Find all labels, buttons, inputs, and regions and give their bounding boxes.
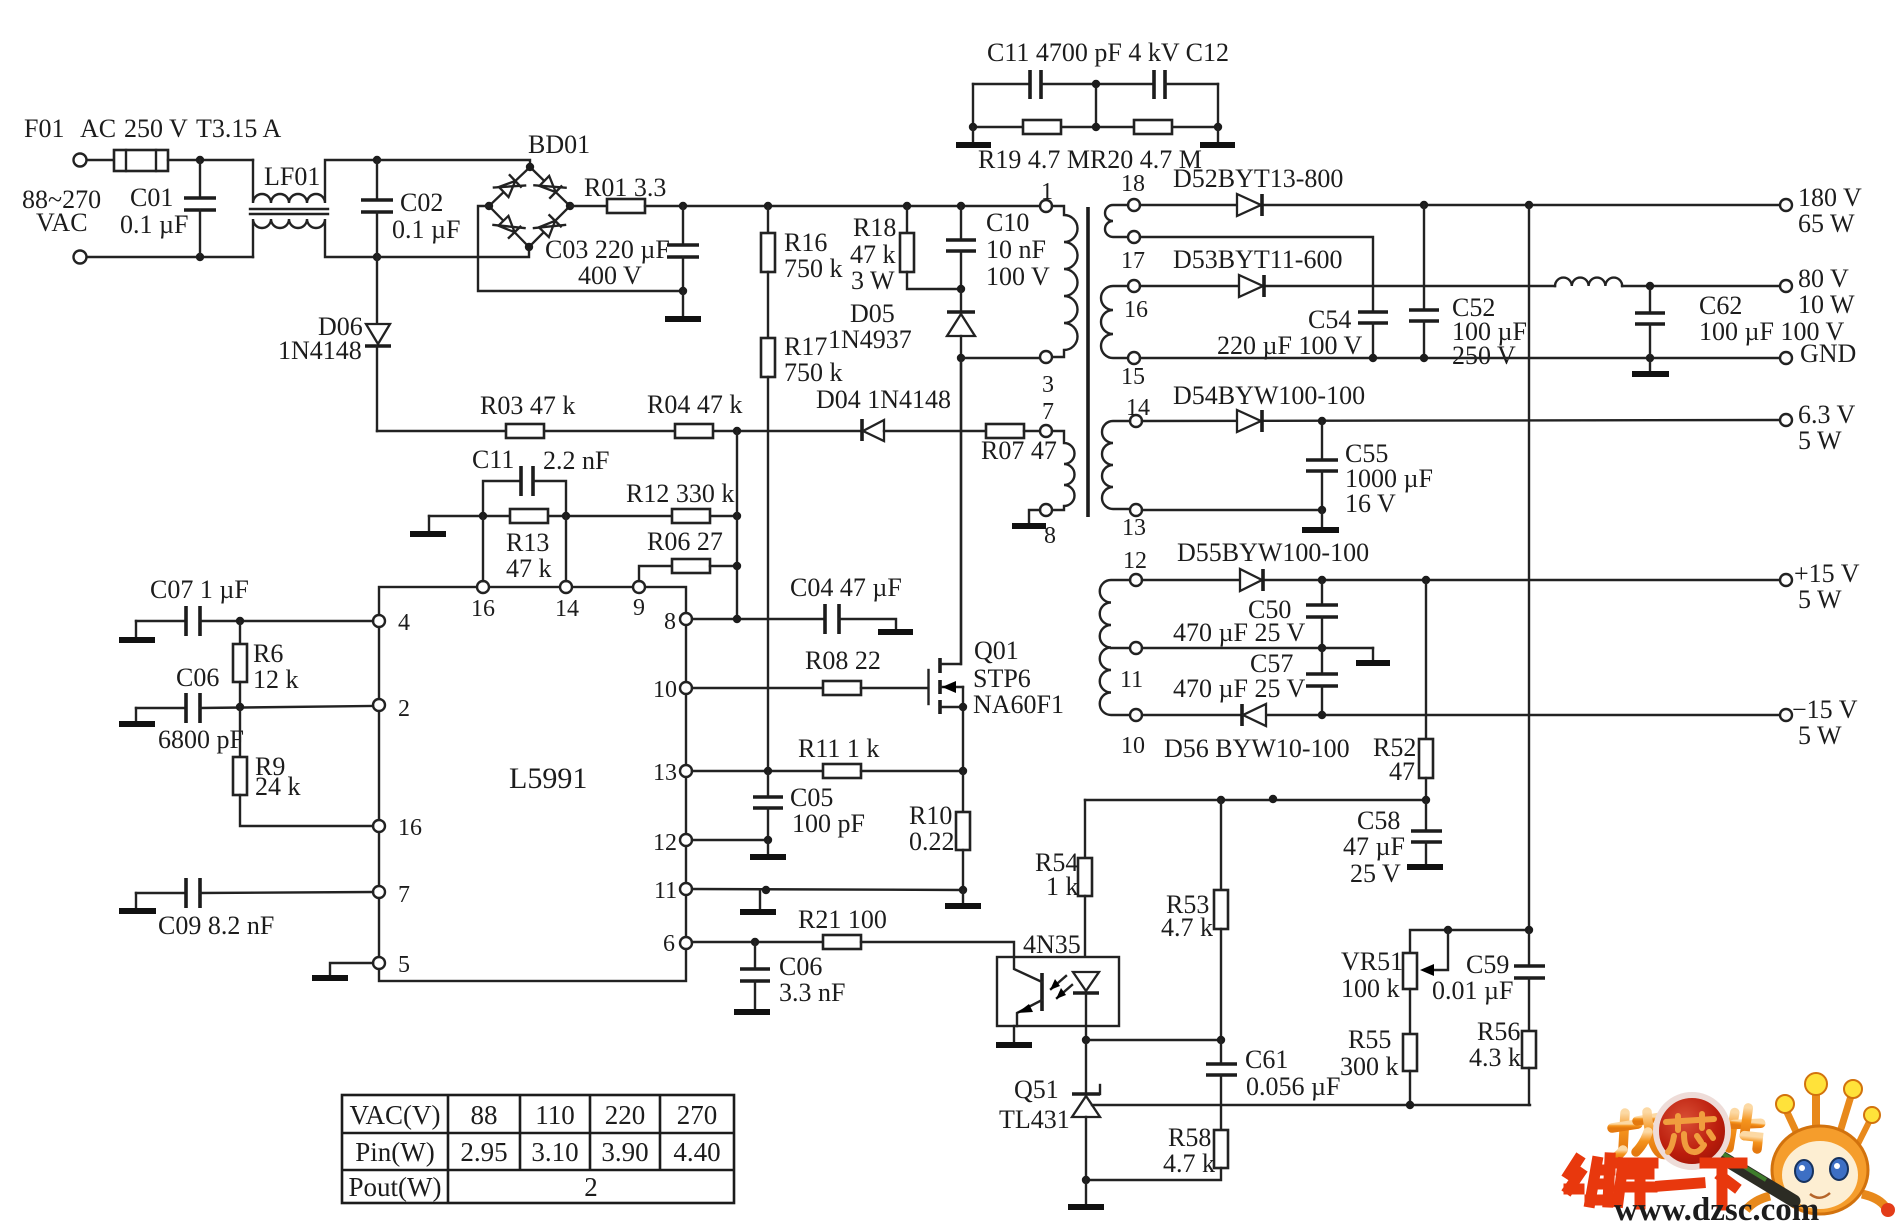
ground C55 [1302, 510, 1339, 530]
svg-text:D04 1N4148: D04 1N4148 [816, 385, 951, 414]
wire 6.3V rail [1142, 420, 1780, 421]
svg-text:F01: F01 [24, 114, 64, 143]
wire R21 to opto [861, 942, 1014, 957]
IC pin 10 [680, 682, 692, 694]
label C50 470uF 25V [1173, 595, 1305, 647]
resistor R01 [607, 199, 645, 213]
watermark char pian [1729, 1106, 1762, 1151]
resistor R06 [639, 559, 737, 581]
optocoupler 4N35 box [997, 957, 1119, 1026]
label C03 220uF 400V [545, 235, 670, 290]
label C06 3.3nF [779, 952, 845, 1007]
wire snubber mid drop [1095, 84, 1097, 127]
svg-text:R6: R6 [253, 639, 283, 668]
svg-text:R12 330 k: R12 330 k [626, 479, 734, 508]
node R53 top [1217, 796, 1225, 804]
svg-text:C10: C10 [986, 208, 1029, 237]
wire pin17 to C54 [1140, 237, 1373, 312]
op-amp U1 L5991 box [379, 587, 686, 981]
label R52 47 [1373, 733, 1416, 786]
node C55 top [1318, 417, 1326, 425]
node R13 left [479, 512, 487, 520]
wire R07 to pin 7 [1024, 430, 1040, 432]
node R55 bottom [1406, 1101, 1414, 1109]
diode D52 [1237, 194, 1262, 216]
capacitor C59 [1514, 930, 1545, 1031]
node R6 top [236, 617, 244, 625]
node C01 bottom junction [196, 253, 204, 261]
IC pin 4 [373, 615, 385, 627]
svg-text:C06: C06 [176, 663, 219, 692]
capacitor C50 [1306, 580, 1338, 648]
watermark magnifier lens [1656, 1095, 1728, 1167]
resistor R17 [761, 338, 775, 377]
svg-text:4: 4 [398, 610, 410, 636]
capacitor C57 [1306, 648, 1338, 715]
node C61 top [1217, 1036, 1225, 1044]
svg-text:7: 7 [1042, 399, 1054, 425]
resistor R03 [506, 424, 544, 438]
wire top rail to C02 [168, 159, 253, 161]
node snubber mid top [1092, 80, 1100, 88]
svg-text:VAC(V): VAC(V) [349, 1100, 440, 1130]
resistor R08 [692, 681, 928, 695]
transformer primary winding [1052, 206, 1078, 357]
transformer pin 11 [1130, 642, 1142, 654]
node pin3 junction [957, 354, 965, 362]
wire 80V rail [1140, 285, 1555, 287]
node C05 bottom [764, 836, 772, 844]
transformer pin 16 [1128, 280, 1140, 292]
IC pin 11 [680, 883, 692, 895]
ground C06 3.3nF [734, 1009, 770, 1015]
capacitor C62 [1635, 286, 1665, 358]
ground C04 [878, 629, 913, 635]
node C57 bottom [1318, 711, 1326, 719]
node C10 top [957, 202, 965, 210]
wire pin13 R11 row [692, 770, 823, 772]
IC pin 14 top [560, 581, 572, 593]
capacitor C01 [184, 160, 216, 257]
svg-text:Pout(W): Pout(W) [349, 1172, 442, 1202]
secondary winding 18-17 [1105, 205, 1128, 237]
svg-text:6: 6 [663, 931, 675, 957]
table column line 3 [589, 1095, 592, 1170]
svg-text:470 µF 25 V: 470 µF 25 V [1173, 618, 1305, 647]
label +15V 5W [1794, 559, 1860, 614]
node R11 right [959, 767, 967, 775]
svg-text:4.3 k: 4.3 k [1469, 1043, 1521, 1072]
ground snubber left [956, 127, 991, 145]
label C02 [392, 188, 460, 244]
inductor 80V filter [1555, 278, 1622, 286]
svg-text:R21 100: R21 100 [798, 905, 887, 934]
svg-text:D54BYW100-100: D54BYW100-100 [1173, 381, 1365, 410]
IC pin 8 [680, 613, 692, 625]
capacitor C09 [136, 878, 373, 908]
svg-text:R58: R58 [1168, 1123, 1211, 1152]
resistor R11 [823, 764, 861, 778]
transistor Q51 TL431 [1072, 1040, 1100, 1180]
svg-text:1N4148: 1N4148 [278, 336, 362, 365]
wire -15V rail [1142, 714, 1780, 716]
node pin8/x737 [733, 615, 741, 623]
wire pin13 row [1142, 509, 1322, 511]
wire R03 R04 row [377, 430, 862, 432]
svg-text:80 V: 80 V [1798, 264, 1849, 293]
resistor R52 [1419, 580, 1433, 799]
svg-text:2: 2 [584, 1172, 598, 1202]
label C11 2.2nF [472, 445, 609, 475]
svg-text:C01: C01 [130, 183, 173, 212]
wire [87, 159, 114, 161]
diode D55 [1240, 569, 1263, 591]
label R13 47k [506, 528, 552, 583]
node C62 bottom [1646, 354, 1654, 362]
resistor R55 [1403, 989, 1417, 1105]
wire pin 12 row [692, 839, 768, 841]
svg-text:2.2 nF: 2.2 nF [543, 446, 609, 475]
svg-text:Q51: Q51 [1014, 1075, 1059, 1104]
svg-text:NA60F1: NA60F1 [973, 690, 1064, 719]
ground C58 [1407, 864, 1443, 870]
node R04/vertical junction [733, 427, 741, 435]
capacitor C02 [361, 160, 393, 257]
resistor R07 [986, 424, 1024, 438]
watermark robot mascot [1746, 1073, 1895, 1217]
wire pin 6 row [692, 941, 823, 943]
svg-text:4.7 k: 4.7 k [1161, 913, 1213, 942]
wire bottom rail to bridge [377, 247, 529, 257]
transformer aux winding [1052, 431, 1075, 510]
label C57 470uF 25V [1173, 649, 1305, 703]
svg-text:4N35: 4N35 [1023, 930, 1081, 959]
diode D53 [1239, 275, 1264, 297]
svg-text:750 k: 750 k [784, 358, 843, 387]
resistor R20 [1134, 120, 1172, 134]
label C59 0.01uF [1432, 950, 1513, 1005]
node C62 top [1646, 282, 1654, 290]
ground C05 [750, 840, 786, 857]
label Q51 TL431 [999, 1075, 1070, 1134]
wire pin11 row [1142, 647, 1373, 649]
wire +15V rail [1142, 579, 1780, 581]
terminal AC input top [74, 154, 87, 167]
label R10 0.22 [909, 801, 955, 856]
svg-text:1N4937: 1N4937 [828, 325, 912, 354]
transformer pin 1 [1040, 200, 1052, 212]
svg-text:D55BYW100-100: D55BYW100-100 [1177, 538, 1369, 567]
svg-text:R19 4.7 MR20 4.7 M: R19 4.7 MR20 4.7 M [978, 145, 1202, 174]
svg-text:14: 14 [1126, 395, 1150, 421]
node HV vertical bottom [1525, 926, 1533, 934]
secondary winding 14-13 [1102, 421, 1130, 509]
label -15V 5W [1792, 695, 1858, 750]
node R11 left [764, 767, 772, 775]
label VR51 100k [1341, 947, 1403, 1003]
wire HV vertical x1529 [1528, 205, 1530, 929]
node C03 top [679, 202, 687, 210]
node R52 top [1422, 576, 1430, 584]
terminal 80V [1780, 280, 1792, 292]
svg-text:R17: R17 [784, 332, 827, 361]
inductor LF01 common-mode choke [250, 160, 377, 257]
resistor R56 [1522, 1031, 1536, 1105]
node R12 right [733, 512, 741, 520]
wire R11 to source [861, 770, 963, 772]
wire pin16top to R13 [482, 516, 484, 581]
svg-text:VR51: VR51 [1341, 947, 1403, 976]
resistor R04 [675, 424, 713, 438]
ground C07 [119, 621, 155, 640]
label Q01 STP6 NA60F1 [973, 636, 1064, 719]
transformer pin 14 [1130, 415, 1142, 427]
svg-text:C54: C54 [1308, 305, 1351, 334]
capacitor C10 [946, 206, 976, 289]
svg-text:65 W: 65 W [1798, 209, 1855, 238]
label D06 1N4148 [278, 312, 363, 365]
wire pin 8 row [692, 618, 825, 620]
table text row 1 [349, 1100, 717, 1130]
svg-text:0.01 µF: 0.01 µF [1432, 976, 1513, 1005]
transformer pin 3 [1040, 351, 1052, 363]
terminal +15V [1780, 574, 1792, 586]
node HV vertical top [1525, 201, 1533, 209]
resistor R9 [233, 707, 373, 826]
capacitor C06 3.3nF [740, 942, 770, 1009]
transformer pin 8 [1040, 504, 1052, 516]
svg-text:47 µF: 47 µF [1343, 832, 1405, 861]
capacitor C06 6800pF [136, 693, 373, 723]
svg-text:100 µF 100 V: 100 µF 100 V [1699, 317, 1844, 346]
wire R16-R17 [767, 272, 769, 338]
svg-text:13: 13 [1122, 515, 1146, 541]
node extra dot [1269, 795, 1277, 803]
svg-text:C05: C05 [790, 783, 833, 812]
table text row 3 [349, 1172, 598, 1202]
wire TL431 ref row [1092, 1104, 1530, 1106]
svg-text:BD01: BD01 [528, 130, 590, 159]
svg-text:0.056 µF: 0.056 µF [1246, 1072, 1340, 1101]
wire R58 bottom [1086, 1168, 1221, 1180]
wire top rail to bridge [377, 160, 530, 167]
node C02 top junction [373, 156, 381, 164]
svg-text:10: 10 [1121, 733, 1145, 759]
svg-text:R11 1 k: R11 1 k [798, 734, 879, 763]
transformer pin 13 [1130, 504, 1142, 516]
svg-text:R08 22: R08 22 [805, 646, 881, 675]
capacitor C03 [667, 206, 699, 291]
node R13 right [562, 512, 570, 520]
light arrows [1050, 976, 1072, 999]
wire R17 down through rows to C05 node [767, 377, 769, 770]
IC pin 9 top [633, 581, 645, 593]
svg-text:100 V: 100 V [986, 262, 1050, 291]
svg-text:−15 V: −15 V [1792, 695, 1858, 724]
node C50 bottom [1318, 644, 1326, 652]
node R06 right [733, 562, 741, 570]
svg-text:C07 1 µF: C07 1 µF [150, 575, 249, 604]
node LED cathode / TL431 [1082, 1036, 1090, 1044]
diode D06 [365, 257, 391, 431]
label C61 0.056uF [1245, 1045, 1340, 1101]
potentiometer VR51 [1403, 930, 1448, 989]
svg-text:17: 17 [1121, 248, 1145, 274]
svg-text:5 W: 5 W [1798, 426, 1842, 455]
node snubber left [969, 123, 977, 131]
capacitor C11 snubber [973, 70, 1154, 99]
label 180V 65W [1798, 183, 1862, 238]
transformer pin 12 [1130, 574, 1142, 586]
svg-text:5: 5 [398, 952, 410, 978]
diode D04 [862, 419, 884, 441]
svg-text:C62: C62 [1699, 291, 1742, 320]
transformer pin 17 [1128, 231, 1140, 243]
svg-text:13: 13 [653, 760, 677, 786]
diode D54 [1237, 410, 1262, 432]
label R16 750k [784, 228, 843, 283]
transformer pin 18 [1128, 199, 1140, 211]
wire winding tap pin 11 [1111, 647, 1130, 649]
label C52 100uF 250V [1452, 293, 1527, 370]
label R56 4.3k [1469, 1017, 1521, 1072]
svg-text:100 k: 100 k [1341, 974, 1400, 1003]
label C54 220uF 100V [1217, 305, 1362, 360]
label C58 47uF 25V [1343, 806, 1405, 888]
svg-text:3.10: 3.10 [531, 1137, 578, 1167]
optocoupler phototransistor [1014, 957, 1042, 1042]
svg-text:R07 47: R07 47 [981, 436, 1057, 465]
node Q01 source dot [959, 703, 967, 711]
watermark char zhao [1611, 1112, 1667, 1159]
svg-text:16: 16 [471, 596, 495, 622]
ground snubber right [1200, 127, 1235, 145]
svg-text:3: 3 [1042, 372, 1054, 398]
label C55 1000uF 16V [1345, 439, 1433, 518]
svg-text:3.3 nF: 3.3 nF [779, 978, 845, 1007]
wire bottom rail [87, 256, 253, 258]
table text row 2 [355, 1137, 720, 1167]
wire bridge plus to R01 [570, 205, 607, 207]
wire feedback rail y800 [1085, 799, 1426, 801]
wire R01 to HV rail [645, 205, 1040, 207]
label F01 fuse rating [24, 114, 281, 143]
svg-text:11: 11 [654, 878, 677, 904]
capacitor C61 [1206, 1040, 1237, 1130]
wire pin 11 row [692, 889, 963, 890]
svg-text:2.95: 2.95 [460, 1137, 507, 1167]
svg-text:220: 220 [605, 1100, 646, 1130]
svg-text:8: 8 [664, 609, 676, 635]
node pin11 ground [762, 886, 770, 894]
svg-text:AC: AC [80, 114, 116, 143]
label 80V 10W [1798, 264, 1855, 319]
capacitor C52 [1409, 205, 1439, 358]
node fuse/C01 junction [196, 156, 204, 164]
IC pin 12 [680, 834, 692, 846]
label R55 300k [1340, 1025, 1399, 1081]
svg-text:3.90: 3.90 [601, 1137, 648, 1167]
svg-text:3 W: 3 W [851, 266, 895, 295]
svg-text:Pin(W): Pin(W) [355, 1137, 434, 1167]
optocoupler LED [1073, 972, 1099, 1040]
label C06 6800pF [158, 663, 244, 754]
svg-text:4.7 k: 4.7 k [1163, 1149, 1215, 1178]
IC pin 2 [373, 699, 385, 711]
label C62 100uF 100V [1699, 291, 1844, 346]
wire VR51 top row [1410, 930, 1529, 953]
svg-text:C59: C59 [1466, 950, 1509, 979]
node R52 bottom [1422, 796, 1430, 804]
svg-text:1: 1 [1041, 179, 1053, 205]
svg-text:7: 7 [398, 882, 410, 908]
svg-text:1 k: 1 k [1046, 872, 1079, 901]
table row line 1 [342, 1132, 734, 1135]
svg-text:T3.15 A: T3.15 A [196, 114, 281, 143]
node R18 top [903, 202, 911, 210]
resistor R21 [823, 935, 861, 949]
ground C06 [119, 708, 155, 724]
wire D04 to R07 [884, 430, 986, 432]
watermark weiku yixia red characters [1569, 1158, 1742, 1205]
svg-text:88: 88 [471, 1100, 498, 1130]
svg-text:250 V: 250 V [1452, 341, 1516, 370]
capacitor C54 [1358, 312, 1388, 358]
ground pin 11 [740, 890, 776, 912]
wire snubber bottom rail [973, 126, 1218, 128]
svg-text:C11 4700 pF 4 kV C12: C11 4700 pF 4 kV C12 [987, 38, 1229, 67]
svg-text:R13: R13 [506, 528, 549, 557]
node R16 top [764, 202, 772, 210]
svg-text:C04 47 µF: C04 47 µF [790, 573, 902, 602]
ground R13 left [410, 516, 446, 534]
capacitor C05 [753, 771, 783, 840]
svg-text:D56 BYW10-100: D56 BYW10-100 [1164, 734, 1350, 763]
svg-text:11: 11 [1120, 667, 1143, 693]
table row line 2 [342, 1169, 734, 1172]
node C52 bottom [1420, 354, 1428, 362]
diode D05 [947, 289, 975, 358]
svg-text:10 nF: 10 nF [986, 235, 1046, 264]
ground pin 8 [1012, 510, 1046, 526]
transformer pin 10 [1130, 709, 1142, 721]
svg-text:D53BYT11-600: D53BYT11-600 [1173, 245, 1342, 274]
svg-text:www.dzsc.com: www.dzsc.com [1614, 1192, 1819, 1222]
terminal AC input bottom [74, 251, 87, 264]
svg-text:D52BYT13-800: D52BYT13-800 [1173, 164, 1343, 193]
resistor R10 [956, 771, 970, 890]
label 6.3V 5W [1798, 400, 1856, 455]
wire snubber right drop [1217, 84, 1219, 127]
node snubber right [1214, 123, 1222, 131]
svg-text:L5991: L5991 [509, 762, 587, 795]
svg-text:47 k: 47 k [506, 554, 552, 583]
terminal GND [1780, 352, 1792, 364]
svg-text:R56: R56 [1477, 1017, 1520, 1046]
capacitor C58 [1411, 800, 1442, 864]
svg-text:D05: D05 [850, 299, 895, 328]
svg-text:270: 270 [677, 1100, 718, 1130]
ground R10 [945, 890, 981, 906]
svg-text:14: 14 [555, 596, 579, 622]
fuse F01 [114, 150, 168, 171]
ground C03 [665, 291, 701, 319]
svg-text:16 V: 16 V [1345, 489, 1396, 518]
svg-text:5 W: 5 W [1798, 585, 1842, 614]
label C01 [120, 183, 188, 239]
label R9 24k [255, 752, 301, 801]
IC pin 13 [680, 765, 692, 777]
